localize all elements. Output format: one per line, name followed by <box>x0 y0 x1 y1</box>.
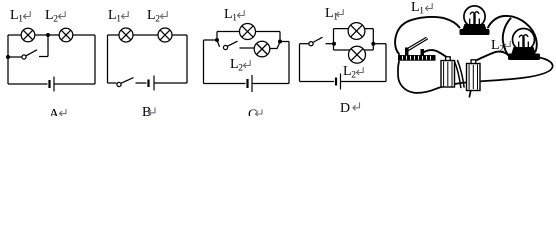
bulb L1 plate <box>460 29 490 35</box>
label L1 (circuit A) <box>10 8 30 25</box>
bulb L2 filament <box>522 37 524 48</box>
wire big bottom loop <box>398 58 553 93</box>
wire bottom right C <box>253 83 290 85</box>
wire main left D <box>300 43 309 45</box>
switch lever <box>407 38 428 51</box>
wire top left B <box>108 34 120 36</box>
wire left rail C <box>203 40 205 84</box>
svg-text:1: 1 <box>116 15 121 25</box>
wire stub up left D <box>333 29 335 44</box>
wire bottom left B <box>108 82 117 84</box>
switch A <box>22 50 37 59</box>
wire middle branch right A <box>39 56 48 58</box>
wire between lamps B <box>133 34 158 36</box>
label L1 (circuit C) <box>224 7 244 24</box>
wire stub left top branch C <box>216 32 218 41</box>
wire top branch C <box>217 31 280 33</box>
lamp L2 D <box>349 46 366 63</box>
battery A <box>50 77 55 92</box>
switch D <box>309 37 323 46</box>
label L2 (circuit A) <box>45 8 65 25</box>
svg-text:1: 1 <box>232 14 237 24</box>
lamp L1 A <box>21 28 35 42</box>
lamp L1 D <box>348 23 365 40</box>
lamp L2 B <box>158 28 172 42</box>
wire top right B <box>172 34 187 36</box>
wire bottom left C <box>204 83 246 85</box>
node right C <box>278 40 282 44</box>
return mark after L1 picture <box>425 4 432 11</box>
wire right rail D <box>385 44 387 82</box>
return mark after L1 D <box>336 10 343 17</box>
lamp L2 A <box>59 28 73 42</box>
lamp L2 C <box>254 41 270 57</box>
node dot on left rail A <box>6 55 10 59</box>
wire top left A <box>8 34 21 36</box>
label D <box>340 101 360 116</box>
wire top right A <box>73 34 95 36</box>
wire between lamps A <box>35 34 59 36</box>
label L2 (picture) <box>491 38 510 55</box>
battery C <box>248 75 253 92</box>
label L1 (picture) <box>411 0 432 17</box>
wire switch-left to top to bulb1 <box>395 17 459 54</box>
label L2 (circuit C) <box>230 57 250 74</box>
wire top branch D <box>334 28 374 30</box>
label L2 (circuit B) <box>147 8 167 25</box>
svg-text:D: D <box>340 101 350 116</box>
battery D <box>336 74 341 90</box>
wire battery2 top to bulb2 base <box>477 52 508 60</box>
battery 2 body <box>467 60 481 91</box>
return mark after L2 C <box>243 61 250 68</box>
return mark after L1 A <box>23 12 30 19</box>
return mark after L2 B <box>160 12 167 19</box>
wire curve left of bulb2 <box>503 19 511 57</box>
wire to lamp L2 C <box>240 47 255 49</box>
battery B <box>149 76 155 91</box>
battery 1 nub <box>446 57 451 61</box>
return mark after L1 B <box>121 12 128 19</box>
wire battery1 to battery2 diagonal <box>454 61 461 88</box>
label C <box>248 108 262 123</box>
label L2 (circuit D) <box>343 64 363 81</box>
label L1 (circuit D) <box>325 6 343 23</box>
switch post right <box>421 49 425 56</box>
bulb L2 plate <box>508 54 540 61</box>
switch C <box>223 41 237 49</box>
wire switch right post to battery1 <box>424 50 448 57</box>
switch base <box>398 55 436 61</box>
wire right rail B <box>186 35 188 83</box>
svg-text:1: 1 <box>419 7 424 17</box>
return mark after L2 D <box>356 68 363 75</box>
wire stub right top branch C <box>279 32 281 42</box>
svg-text:A: A <box>49 107 60 116</box>
lamp L1 B <box>119 28 133 42</box>
svg-text:1: 1 <box>18 15 23 25</box>
wire right rail A <box>94 35 96 84</box>
wire left rail A <box>7 35 9 84</box>
wire bottom middle B <box>136 82 147 84</box>
wire bottom left D <box>300 81 335 83</box>
switch post left <box>405 48 409 56</box>
wire bottom branch D <box>334 49 374 51</box>
wire vertical from node to middle branch A <box>47 35 49 57</box>
wire bulb1 to bulb2 over top <box>488 16 537 52</box>
bulb L2 glass <box>508 29 540 61</box>
switch base hatches <box>403 56 431 60</box>
label L1 (circuit B) <box>108 8 128 25</box>
label B <box>142 105 155 120</box>
wire from L2 to right node C <box>270 42 280 49</box>
node left D <box>332 42 336 46</box>
svg-text:2: 2 <box>53 15 58 25</box>
battery 2 nub <box>471 60 476 64</box>
bulb L1 glass <box>460 6 490 35</box>
wire main line left C <box>204 39 218 41</box>
wire bottom right D <box>341 81 386 83</box>
label A <box>49 107 66 122</box>
wire stub down right D <box>372 44 374 50</box>
wire stub down left D <box>333 44 335 50</box>
svg-text:2: 2 <box>155 15 160 25</box>
wire main right D <box>373 43 386 45</box>
node left C <box>215 38 219 42</box>
bulb L2 socket <box>512 47 536 54</box>
battery 1 body <box>441 57 455 87</box>
wire bottom right B <box>155 82 188 84</box>
wire dip to switch C <box>217 40 220 47</box>
return mark after L2 A <box>58 12 65 19</box>
node right D <box>371 42 375 46</box>
wire left rail D <box>299 44 301 82</box>
return mark after L1 C <box>237 11 244 18</box>
wire middle branch left A <box>8 56 22 58</box>
return mark after L2 picture <box>503 42 510 49</box>
wire right to corner C <box>280 41 289 43</box>
wire right rail C <box>288 42 290 84</box>
switch B <box>117 78 134 87</box>
wire bottom right A <box>55 83 96 85</box>
wire stub up right D <box>372 29 374 44</box>
svg-text:2: 2 <box>351 71 356 81</box>
wire left rail B <box>107 35 109 83</box>
bulb L1 filament <box>473 14 475 25</box>
lamp L1 C <box>240 24 256 40</box>
bulb L1 socket <box>463 24 487 30</box>
node junction top A <box>46 33 50 37</box>
wire bottom left A <box>8 83 48 85</box>
svg-text:2: 2 <box>238 64 243 74</box>
wire battery2 bottom spike <box>469 91 470 97</box>
wire to left node D <box>326 43 335 45</box>
